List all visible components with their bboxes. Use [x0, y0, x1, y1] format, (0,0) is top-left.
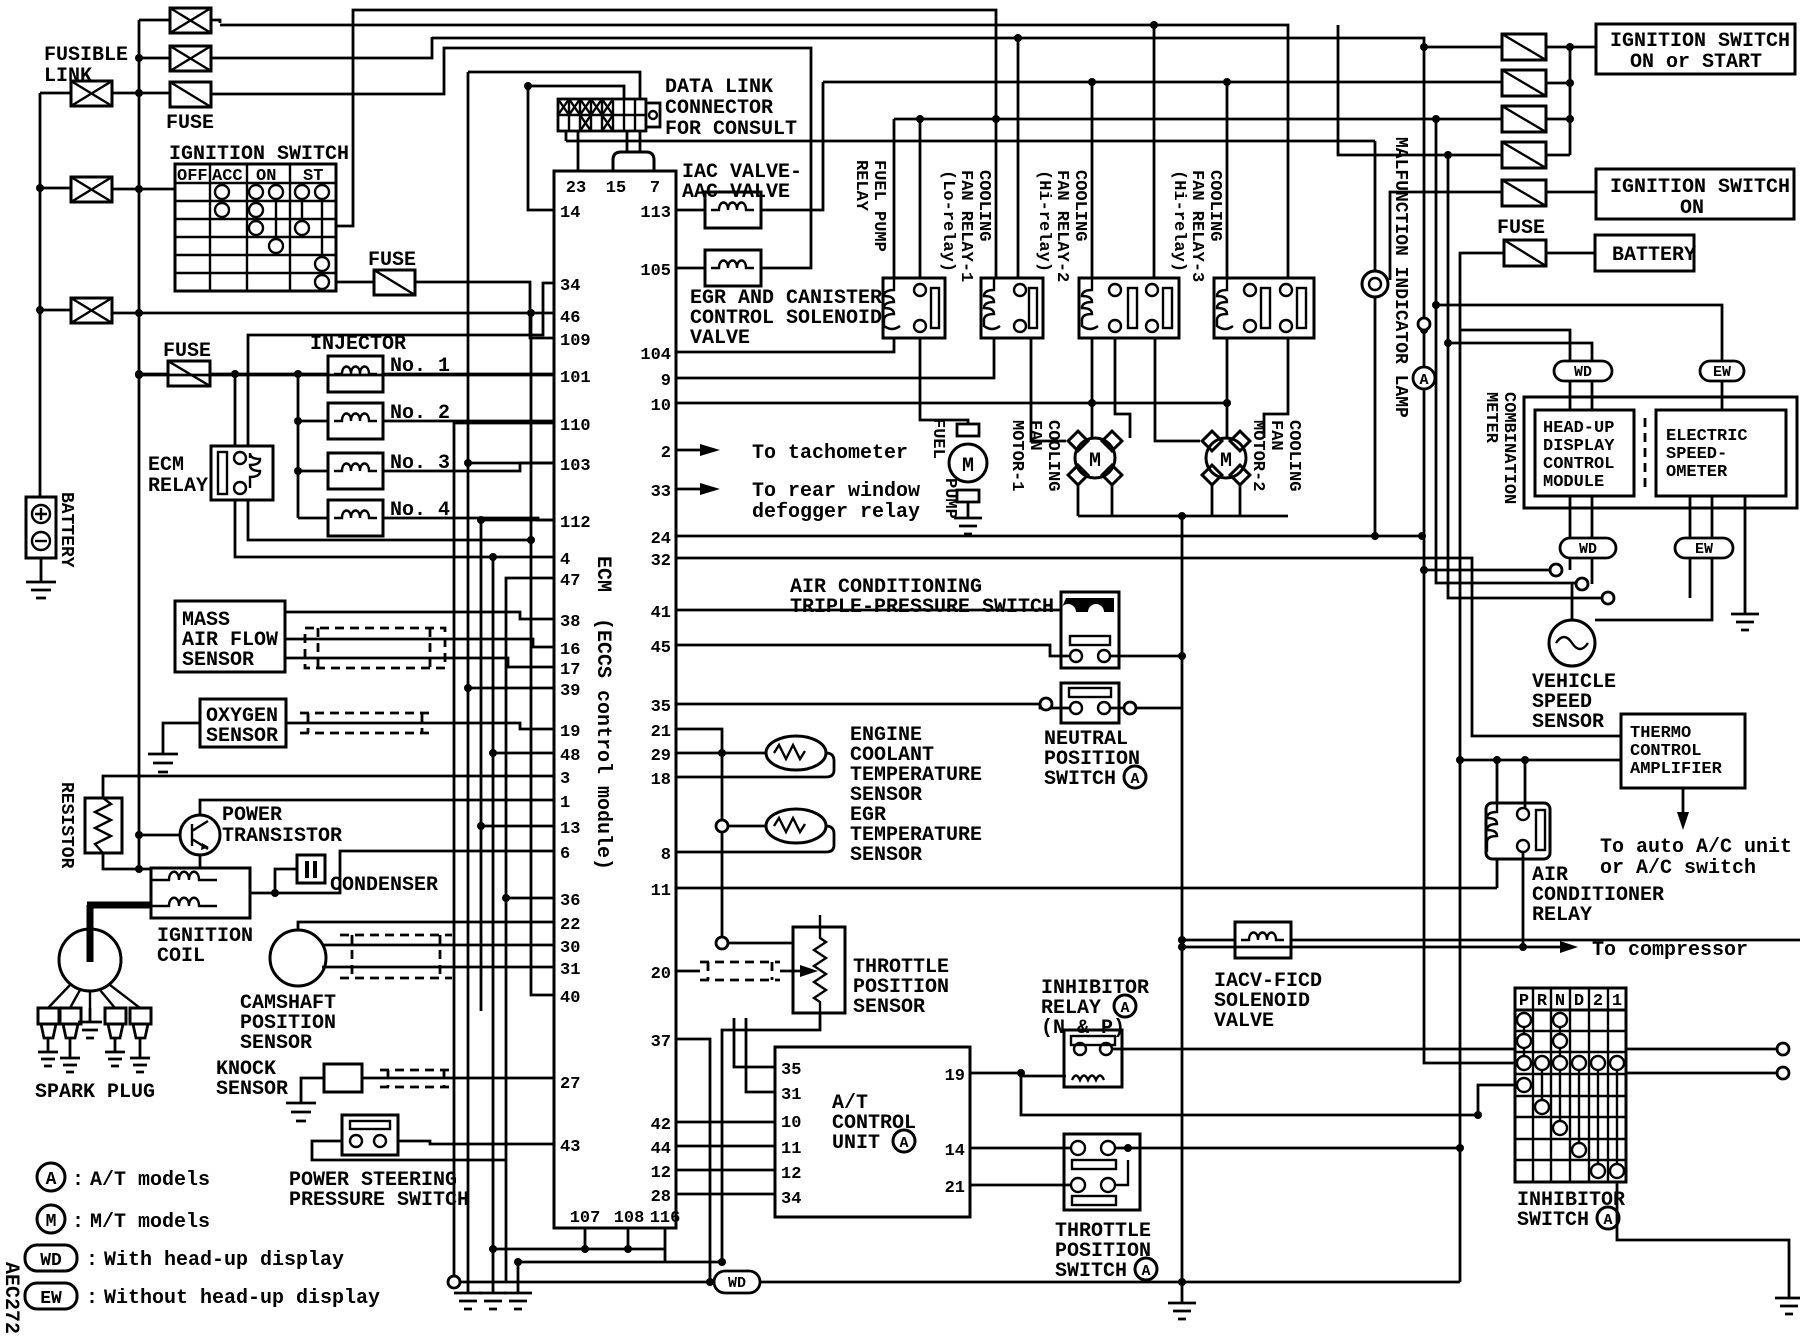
- svg-text:ECM: ECM: [591, 556, 614, 592]
- wire to compressor arrow: [1523, 941, 1578, 953]
- label COOLING FAN RELAY-1 vertical: [938, 170, 993, 282]
- node ECM relay bottom dots: [489, 536, 535, 561]
- svg-text:WD: WD: [728, 1275, 746, 1292]
- wire distributor fan to plugs: [48, 985, 140, 1008]
- svg-text:MALFUNCTION INDICATOR LAMP: MALFUNCTION INDICATOR LAMP: [1390, 137, 1410, 418]
- wire pin10 to CFR2 coil: [676, 402, 1227, 405]
- connector O2 dashed: [300, 713, 430, 733]
- svg-text:Without head-up display: Without head-up display: [104, 1287, 380, 1310]
- wire pin37 trunk: [676, 1039, 710, 1282]
- wire CPS out1 to pin30: [322, 944, 554, 947]
- wire F3 leads: [139, 373, 328, 376]
- relay fuel pump: [883, 278, 945, 338]
- ground battery: [26, 558, 56, 598]
- svg-text:11: 11: [781, 1140, 801, 1159]
- svg-text:COOLING: COOLING: [1205, 170, 1224, 241]
- motor cooling fan motor-1: [1068, 431, 1122, 485]
- wire pin35 to NPS: [676, 704, 1070, 708]
- svg-text:MODULE: MODULE: [1543, 473, 1604, 492]
- wire pin104 to FP relay coil: [676, 338, 894, 352]
- svg-text:SENSOR: SENSOR: [240, 1032, 312, 1055]
- camshaft position sensor: [270, 930, 326, 986]
- svg-text:ECM: ECM: [148, 454, 184, 477]
- ECM connector funnel: [613, 152, 654, 171]
- label COOLING FAN RELAY-3 vertical: [1169, 170, 1224, 282]
- svg-text:SENSOR: SENSOR: [1532, 711, 1604, 734]
- svg-text:21: 21: [651, 723, 671, 742]
- ground oxygen sensor: [148, 723, 200, 772]
- fuse F1: [170, 82, 211, 107]
- wire coolant sensor return pin18: [676, 753, 834, 777]
- node x996 dot: [992, 115, 1000, 123]
- node MIL pin24 dot: [1371, 532, 1379, 540]
- legend circled A: [37, 1163, 84, 1192]
- wire ignition switch out2: [336, 281, 374, 284]
- wire pin2 tachometer: [676, 444, 720, 456]
- op-amp U1 ECM (ECCS control module) box: [554, 171, 676, 1228]
- svg-text:101: 101: [560, 369, 591, 388]
- wire pin9 to CFR1 coil: [676, 338, 994, 378]
- svg-text:1: 1: [560, 794, 570, 813]
- node NPS left open circle: [1040, 698, 1052, 710]
- relay air conditioner: [1486, 803, 1550, 859]
- wire right trunk x1424: [1424, 47, 1550, 1063]
- ignition switch table: [175, 164, 336, 291]
- svg-text:(Hi-relay): (Hi-relay): [1169, 170, 1188, 272]
- wire pin32: [676, 558, 1621, 736]
- node trunk dots: [464, 309, 535, 902]
- ground trunk x1182: [1168, 1282, 1196, 1319]
- connector knock dashed: [380, 1070, 452, 1087]
- svg-text:10: 10: [781, 1114, 801, 1133]
- wire compressor line: [1182, 946, 1523, 949]
- power steering pressure switch: [342, 1115, 398, 1155]
- wire MAF outputs: [285, 612, 554, 667]
- svg-text:7: 7: [650, 179, 660, 198]
- svg-text:WD: WD: [1574, 364, 1592, 381]
- svg-text:A: A: [1141, 1263, 1150, 1280]
- wire TPS top feed: [728, 942, 793, 945]
- svg-text:FAN RELAY-2: FAN RELAY-2: [1052, 170, 1071, 282]
- wire left battery trunk: [40, 93, 71, 497]
- svg-text:VALVE: VALVE: [690, 327, 750, 350]
- node relay feed dot: [231, 370, 239, 378]
- node TPSW out dot: [1124, 1144, 1132, 1152]
- svg-text:2: 2: [1593, 992, 1603, 1011]
- battery BT1: [26, 497, 56, 558]
- svg-text:A: A: [1603, 1212, 1612, 1229]
- ignition switch ON or START box: [1596, 24, 1795, 74]
- node bottom bus dots: [706, 1258, 1186, 1286]
- wire IACV feed: [1182, 939, 1235, 942]
- svg-text:21: 21: [945, 1179, 965, 1198]
- svg-text:or A/C switch: or A/C switch: [1600, 857, 1756, 880]
- wire pin21 trunk: [676, 729, 722, 943]
- distributor rotor: [59, 905, 151, 991]
- svg-text:FUSE: FUSE: [368, 249, 416, 272]
- wire TPSW out: [1115, 1147, 1460, 1150]
- svg-text::: :: [86, 1287, 98, 1310]
- node AT19 dot: [1017, 1069, 1025, 1077]
- wire ECM relay to pin46: [234, 374, 237, 446]
- svg-text:To rear window: To rear window: [752, 480, 920, 503]
- wire TPS bottom: [722, 1013, 820, 1262]
- svg-text:24: 24: [651, 530, 671, 549]
- label SWITCH A: [1517, 1207, 1619, 1232]
- fusible link FL4: [71, 177, 112, 202]
- svg-text:34: 34: [560, 277, 580, 296]
- fuse R1: [1502, 34, 1546, 60]
- svg-text:A: A: [46, 1170, 57, 1190]
- svg-text:FAN RELAY-3: FAN RELAY-3: [1187, 170, 1206, 282]
- svg-text:109: 109: [560, 332, 591, 351]
- node bus junctions dots: [995, 11, 1231, 278]
- wire IACV out: [1291, 939, 1800, 942]
- wire pin42 to AT10: [676, 1121, 775, 1124]
- svg-text:37: 37: [651, 1033, 671, 1052]
- svg-text:FAN: FAN: [1266, 420, 1285, 451]
- svg-text:To compressor: To compressor: [1592, 939, 1748, 962]
- fuse R3: [1502, 106, 1546, 132]
- ground distributor mid: [78, 1008, 102, 1038]
- node speedo open circle: [1576, 578, 1588, 590]
- svg-text:COOLING: COOLING: [1043, 420, 1062, 491]
- svg-text:M/T models: M/T models: [90, 1211, 210, 1234]
- wire bus y72 DLC feed: [468, 72, 640, 99]
- svg-text:2: 2: [661, 444, 671, 463]
- svg-text:14: 14: [945, 1142, 965, 1161]
- fuse R2: [1502, 70, 1546, 96]
- vehicle speed sensor: [1549, 620, 1595, 666]
- svg-text:48: 48: [560, 747, 580, 766]
- legend circled M: [37, 1205, 84, 1234]
- svg-text:46: 46: [560, 309, 580, 328]
- svg-text:A: A: [1130, 771, 1139, 788]
- svg-text:6: 6: [560, 845, 570, 864]
- wire bus y141 from DLC: [566, 140, 1375, 143]
- svg-text:FUEL: FUEL: [928, 418, 947, 459]
- svg-text:RESISTOR: RESISTOR: [56, 782, 76, 869]
- svg-text:A: A: [1120, 1000, 1129, 1017]
- wire O2 output: [286, 723, 554, 729]
- inhibitor switch table: [1515, 988, 1626, 1182]
- svg-text:CONTROL: CONTROL: [1543, 455, 1614, 474]
- svg-text:A: A: [1419, 372, 1428, 389]
- svg-text:INJECTOR: INJECTOR: [310, 333, 406, 356]
- wire AT19 to inhibitor coil: [970, 1073, 1066, 1076]
- wire FP relay to fuel pump: [920, 338, 968, 424]
- node pin24 x1422 dot: [1418, 532, 1426, 540]
- node injector feed dots: [294, 370, 302, 475]
- svg-text:M: M: [46, 1212, 57, 1232]
- wire trunk x506: [506, 578, 554, 1282]
- svg-text:COOLING: COOLING: [974, 170, 993, 241]
- label SWITCH A: [1055, 1258, 1157, 1283]
- wire thermo arrow out: [1677, 788, 1689, 830]
- connector WD pill on bus: [714, 1271, 760, 1293]
- wire coil secondary out: [250, 892, 275, 895]
- svg-text:SWITCH: SWITCH: [1055, 1260, 1127, 1283]
- svg-text:29: 29: [651, 747, 671, 766]
- svg-text:108: 108: [614, 1209, 645, 1228]
- wire resistor top to pin3: [103, 776, 554, 798]
- svg-text:PRESSURE SWITCH: PRESSURE SWITCH: [289, 1189, 469, 1212]
- svg-text:(Lo-relay): (Lo-relay): [938, 170, 957, 272]
- wire pin33 defogger: [676, 483, 720, 495]
- fusible link FL1: [170, 8, 211, 33]
- wire CFR2b CFR3 to motor2: [1155, 338, 1288, 441]
- svg-text:ST: ST: [303, 167, 323, 186]
- svg-text:METER: METER: [1481, 392, 1500, 444]
- wire pin36: [506, 897, 554, 900]
- wire bus y82: [761, 82, 1502, 210]
- node circled A right: [1413, 367, 1435, 389]
- wire inhibitor contact right: [1112, 1048, 1777, 1051]
- solenoid EGR and canister control valve: [705, 250, 761, 286]
- wire vertical x996: [995, 119, 998, 278]
- node x1424 branch dots: [1420, 326, 1461, 574]
- svg-text:42: 42: [651, 1116, 671, 1135]
- connector CPS dashed: [340, 935, 452, 978]
- wire F1 output: [211, 48, 811, 268]
- wire meter dashed separator: [1644, 418, 1647, 488]
- wire pin13: [481, 825, 554, 828]
- svg-text:FAN RELAY-1: FAN RELAY-1: [956, 170, 975, 282]
- svg-text:MOTOR-1: MOTOR-1: [1007, 420, 1026, 491]
- svg-text:EW: EW: [40, 1289, 62, 1309]
- svg-text:104: 104: [640, 346, 671, 365]
- svg-text:SWITCH: SWITCH: [1044, 768, 1116, 791]
- connector MAF dashed: [305, 628, 445, 668]
- svg-text:FOR CONSULT: FOR CONSULT: [665, 118, 797, 141]
- node EGR open circle: [716, 820, 728, 832]
- svg-text:19: 19: [560, 723, 580, 742]
- svg-text:ON: ON: [256, 167, 276, 186]
- svg-text:1: 1: [1612, 992, 1622, 1011]
- svg-text:MOTOR-2: MOTOR-2: [1248, 420, 1267, 491]
- node x1436 dots: [1432, 301, 1452, 347]
- node compressor dots: [1178, 943, 1527, 951]
- relay inhibitor: [1064, 1030, 1122, 1087]
- node F3 dot: [135, 370, 143, 378]
- svg-text:VALVE: VALVE: [1214, 1010, 1274, 1033]
- wire DLC down pins: [566, 131, 640, 171]
- svg-text:PUMP: PUMP: [940, 478, 959, 519]
- svg-text:LINK: LINK: [44, 65, 92, 88]
- ground bottom x518: [504, 1262, 532, 1309]
- svg-text:41: 41: [651, 604, 671, 623]
- ECM relay K1: [211, 446, 273, 500]
- svg-text:45: 45: [651, 639, 671, 658]
- relay cooling fan 1: [981, 278, 1043, 338]
- spark plug 3: [105, 1008, 126, 1066]
- svg-text:R: R: [1537, 992, 1548, 1011]
- wire trunk x1182: [1181, 516, 1184, 1282]
- wire knock sensor out: [362, 1078, 554, 1081]
- ground knock sensor: [286, 1078, 324, 1121]
- svg-text:43: 43: [560, 1138, 580, 1157]
- node x1448 dot: [1444, 151, 1452, 159]
- svg-text:POWER: POWER: [222, 804, 282, 827]
- svg-text:TRANSISTOR: TRANSISTOR: [222, 825, 342, 848]
- wire transistor base: [139, 834, 181, 837]
- svg-text:UNIT: UNIT: [832, 1132, 880, 1155]
- wire pin101: [139, 374, 554, 377]
- svg-text:M: M: [1089, 450, 1101, 473]
- wire PSPS out to pin43: [398, 1141, 554, 1144]
- transistor Q1 power transistor: [180, 815, 220, 855]
- label COOLING FAN MOTOR-1 vertical: [1007, 420, 1062, 491]
- node x1424 open circle: [1418, 318, 1430, 330]
- wire inhibitor net down: [1021, 1073, 1777, 1115]
- svg-text:SENSOR: SENSOR: [206, 725, 278, 748]
- wire pin28 to AT34: [676, 1193, 775, 1196]
- svg-text:ON: ON: [1680, 197, 1704, 220]
- sensor EGR temperature: [766, 809, 826, 843]
- solenoid IACV-FICD: [1235, 922, 1291, 958]
- svg-text:ELECTRIC: ELECTRIC: [1666, 427, 1748, 446]
- svg-text:A/T models: A/T models: [90, 1169, 210, 1192]
- wire EGR sensor feed: [728, 825, 766, 828]
- svg-text:3: 3: [560, 770, 570, 789]
- fuse F3 injector feed: [168, 361, 210, 386]
- node speedo open circle2: [1602, 592, 1614, 604]
- connector EW pill bottom: [1675, 538, 1733, 558]
- wire AC switch out: [1110, 655, 1182, 658]
- svg-text:D: D: [1574, 992, 1584, 1011]
- svg-text:SPEED-: SPEED-: [1666, 445, 1727, 464]
- svg-text:IGNITION SWITCH: IGNITION SWITCH: [1610, 176, 1790, 199]
- svg-text:WD: WD: [40, 1251, 62, 1271]
- svg-text:10: 10: [651, 397, 671, 416]
- ground inhibitor out: [1775, 1298, 1800, 1314]
- node bus y25 junction: [1150, 21, 1158, 278]
- svg-text:WD: WD: [1579, 541, 1597, 558]
- throttle position sensor: [793, 915, 845, 1013]
- node resistor bottom dot: [135, 865, 143, 873]
- svg-text:A: A: [899, 1135, 908, 1152]
- wire thermo feeds: [1460, 759, 1621, 762]
- wire ECM relay bottom pins: [235, 500, 531, 557]
- svg-text:113: 113: [640, 204, 671, 223]
- wire transistor emitter: [199, 855, 202, 869]
- svg-text:31: 31: [560, 961, 580, 980]
- wire trunk x454: [454, 423, 554, 1282]
- svg-text:35: 35: [651, 698, 671, 717]
- node meter open circle: [1550, 564, 1562, 576]
- node bus y47 junction: [1420, 43, 1428, 51]
- label SWITCH A: [1044, 766, 1146, 791]
- svg-text:RELAY: RELAY: [851, 160, 870, 212]
- A/T control unit box: [775, 1047, 970, 1217]
- svg-text:DISPLAY: DISPLAY: [1543, 437, 1615, 456]
- node TPS open circle: [716, 937, 728, 949]
- node TPSW x1460 dot: [1456, 1144, 1464, 1152]
- svg-text:EW: EW: [1713, 364, 1731, 381]
- svg-text:38: 38: [560, 613, 580, 632]
- capacitor C1 condenser: [297, 855, 325, 883]
- svg-text:12: 12: [651, 1164, 671, 1183]
- svg-text:16: 16: [560, 641, 580, 660]
- label COMBINATION METER vertical: [1481, 392, 1518, 504]
- svg-text:19: 19: [945, 1067, 965, 1086]
- node IACV dot: [1178, 936, 1186, 944]
- node NPS right open circle: [1124, 702, 1136, 714]
- wire CFR1 to motor1: [1031, 338, 1066, 441]
- svg-text:AMPLIFIER: AMPLIFIER: [1630, 760, 1723, 779]
- relay cooling fan 3: [1214, 278, 1314, 338]
- label FUEL PUMP vertical: [928, 418, 959, 519]
- wire pin45 to AC switch: [676, 645, 1070, 656]
- svg-text:FUSE: FUSE: [166, 112, 214, 135]
- node battery trunk dots: [36, 184, 44, 314]
- wire trunk x531: [531, 313, 554, 995]
- wire pin41 to AC switch: [676, 609, 1061, 612]
- relay cooling fan 2: [1079, 278, 1179, 338]
- svg-text:35: 35: [781, 1061, 801, 1080]
- svg-text:44: 44: [651, 1140, 671, 1159]
- label COOLING FAN RELAY-2 vertical: [1034, 170, 1089, 282]
- wire NPS out: [1110, 707, 1182, 710]
- svg-text:COMBINATION: COMBINATION: [1499, 392, 1518, 504]
- node pin29 dot: [718, 749, 726, 757]
- node y516 dot: [1178, 512, 1186, 520]
- svg-text:47: 47: [560, 572, 580, 591]
- svg-text:AEC272: AEC272: [0, 1262, 22, 1334]
- ignition switch ON box: [1596, 169, 1794, 219]
- wire FL3 to F1: [112, 92, 170, 95]
- wire AC relay top feeds: [1497, 760, 1525, 808]
- label UNIT A: [832, 1130, 915, 1155]
- wire injector feed trunk: [298, 374, 328, 518]
- wire bus y86 DLC feed: [528, 86, 624, 99]
- node fuse output dots: [1566, 43, 1574, 123]
- wire pin39: [468, 687, 554, 690]
- oxygen sensor box: [200, 699, 286, 747]
- svg-text:31: 31: [781, 1086, 801, 1105]
- svg-text:110: 110: [560, 417, 591, 436]
- fusible link FL3: [71, 81, 112, 106]
- svg-text::: :: [86, 1249, 98, 1272]
- svg-text:9: 9: [661, 372, 671, 391]
- svg-text:32: 32: [651, 552, 671, 571]
- fusible link FL5: [71, 298, 112, 323]
- svg-text::: :: [72, 1211, 84, 1234]
- node bottom dots: [489, 1245, 632, 1266]
- svg-text:112: 112: [560, 514, 591, 533]
- wire fuse R5 feed: [1390, 192, 1502, 280]
- spark plug 4: [130, 1008, 151, 1072]
- wire injector outputs: [383, 374, 554, 520]
- wire F2 output to ECM pin109: [415, 282, 554, 338]
- sensor engine coolant temperature: [766, 736, 826, 770]
- node pin101 dot: [135, 371, 143, 379]
- svg-text:14: 14: [560, 204, 580, 223]
- svg-text:(ECCS control module): (ECCS control module): [591, 618, 614, 870]
- wire bus y119: [894, 118, 1502, 121]
- svg-text:105: 105: [640, 262, 671, 281]
- svg-text:CONDENSER: CONDENSER: [330, 874, 438, 897]
- wire FL2 leads: [139, 37, 432, 58]
- svg-text:IGNITION SWITCH: IGNITION SWITCH: [1610, 30, 1790, 53]
- svg-text:OFF: OFF: [177, 167, 208, 186]
- wire pin12 to AT12: [676, 1169, 775, 1172]
- svg-text:107: 107: [570, 1209, 601, 1228]
- svg-text:CONNECTOR: CONNECTOR: [665, 97, 773, 120]
- injector No.4: [328, 500, 383, 536]
- wire FL1 leads: [139, 20, 220, 23]
- fuse F2: [374, 270, 415, 295]
